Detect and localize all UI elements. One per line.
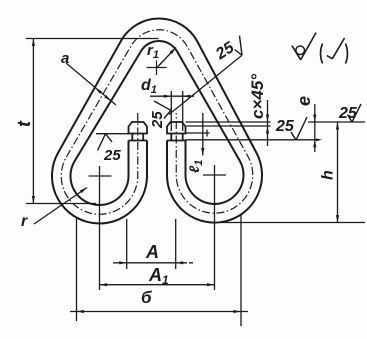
l1 dimension line	[202, 113, 204, 156]
svg-text:б: б	[141, 288, 152, 307]
e dimension line	[314, 104, 316, 152]
svg-text:ℓ1: ℓ1	[186, 160, 205, 173]
a leader line	[66, 63, 116, 105]
triangular link inner contour	[71, 41, 244, 205]
right leg head cap	[167, 122, 186, 134]
c chamfer extension line bottom	[187, 125, 271, 127]
c chamfer extension line top	[186, 121, 271, 123]
d1 extension lines	[170, 91, 172, 131]
left leg head cap	[129, 122, 148, 134]
roughness 25 check far right	[348, 115, 353, 123]
t dimension extension line bottom	[26, 203, 96, 205]
h bottom extension line	[210, 222, 365, 224]
b dimension line	[70, 311, 248, 313]
right loop center mark	[203, 174, 226, 176]
svg-text:25: 25	[275, 118, 295, 135]
apex center mark	[147, 67, 167, 69]
roughness leader to right head	[169, 55, 242, 114]
svg-text:25: 25	[149, 111, 166, 129]
l1 top reference line	[186, 132, 210, 134]
r1 leader line	[157, 48, 176, 68]
svg-text:e: e	[294, 96, 314, 106]
parenthesis right	[346, 44, 348, 64]
parenthesis left	[321, 44, 323, 64]
svg-text:25: 25	[212, 39, 238, 64]
svg-text:A1: A1	[148, 265, 169, 287]
left leg neck	[131, 134, 133, 141]
roughness 25 check on shoulder line	[291, 132, 296, 140]
svg-text:r1: r1	[147, 42, 159, 61]
check in parentheses	[327, 56, 333, 59]
A dimension line	[113, 262, 183, 264]
r leader line	[34, 188, 87, 225]
t dimension extension line top	[26, 38, 159, 40]
A1 extension lines	[99, 166, 101, 290]
triangular link outer contour	[52, 19, 262, 224]
svg-text:A: A	[145, 242, 159, 262]
b extension lines	[76, 218, 78, 321]
left loop center mark	[89, 175, 112, 177]
svg-text:a: a	[61, 50, 69, 67]
general roughness symbol check with circle	[292, 46, 301, 60]
right leg neck	[170, 134, 172, 141]
a arrowheads	[96, 88, 102, 94]
rod dash-dot centerline	[61, 30, 252, 215]
roughness 25 check left of left head	[98, 134, 106, 151]
roughness 25 check near apex	[240, 36, 243, 56]
h dimension line	[337, 122, 339, 223]
svg-text:r: r	[21, 213, 28, 230]
svg-text:h: h	[320, 170, 337, 180]
t dimension line	[32, 39, 34, 204]
A extension lines	[126, 219, 128, 269]
left head surface line	[96, 133, 129, 135]
svg-text:d1: d1	[141, 77, 157, 96]
d1 dimension line	[150, 95, 194, 97]
roughness 25 check on d1 extension	[154, 101, 171, 110]
cap top far right extension line	[308, 121, 365, 123]
svg-text:25: 25	[338, 105, 358, 122]
svg-text:c×45°: c×45°	[248, 74, 267, 119]
c dimension line	[267, 100, 269, 146]
svg-text:t: t	[14, 120, 34, 127]
A1 dimension line	[100, 284, 215, 286]
shoulder extension line right	[186, 139, 319, 141]
svg-text:25: 25	[103, 147, 121, 164]
